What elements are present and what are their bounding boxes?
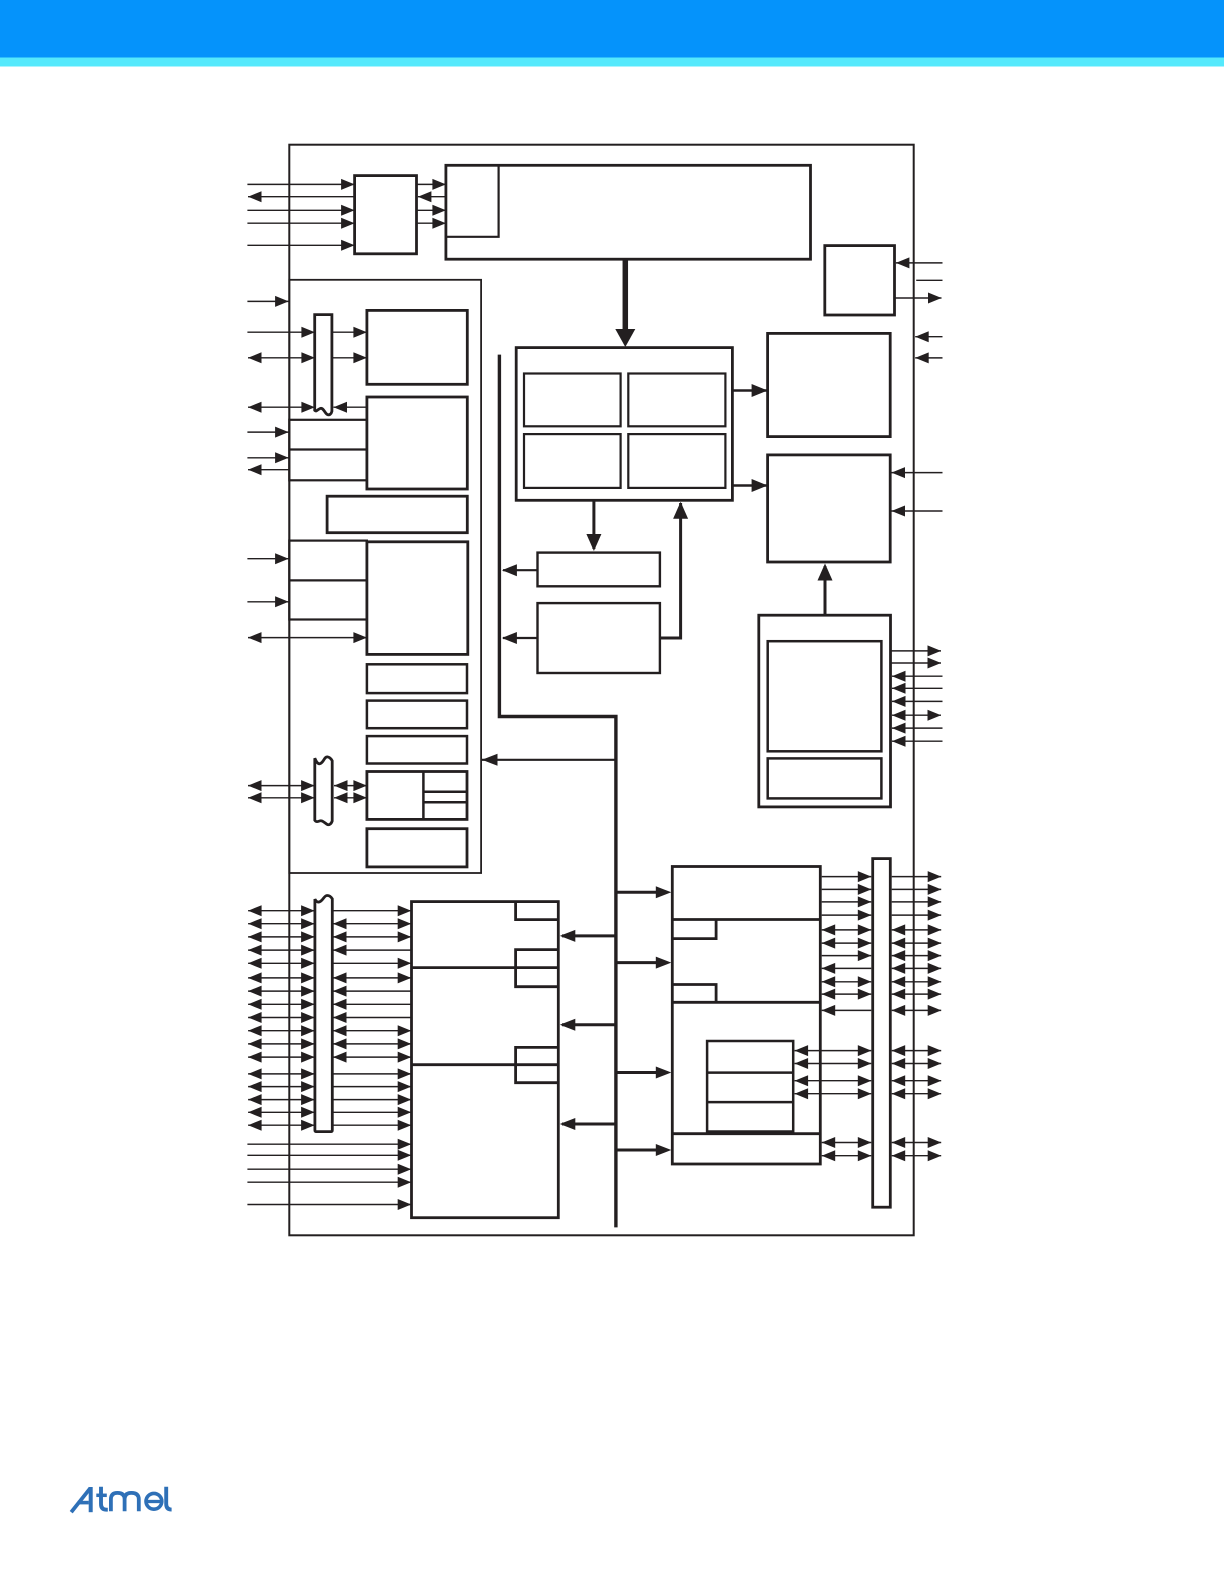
serial row 10 left segment bbox=[822, 989, 872, 1000]
pin line into SRAM b bbox=[892, 506, 943, 517]
CPU block bbox=[516, 348, 732, 501]
CPU register file block bbox=[524, 374, 621, 427]
pin line into debugWIRE bbox=[896, 257, 943, 268]
pin line ribbon R1 c bidirectional bbox=[248, 402, 315, 413]
supervision cell pair upper bbox=[289, 420, 367, 481]
port pin line 6 left segment bbox=[248, 972, 315, 983]
bus arrow into left section bbox=[482, 754, 616, 766]
CPU ALU block bbox=[628, 374, 725, 427]
pin line SPI b bidirectional bbox=[248, 792, 315, 803]
pin line ADC out 2 bbox=[891, 658, 942, 669]
pin line RESET into watchdog bbox=[247, 240, 354, 251]
internal bandgap block bbox=[768, 758, 882, 798]
bus arrow clock to CPU bbox=[615, 259, 635, 347]
SPI inner divider vertical bbox=[422, 772, 425, 820]
port wire 1 ribbon to port block bbox=[332, 905, 411, 916]
ribbon connector R1 bbox=[315, 315, 332, 415]
serial bottom row 1 right segment bbox=[892, 1137, 942, 1148]
port pin line 4 left segment bbox=[248, 945, 315, 956]
pin line into ribbon R1 a bbox=[247, 327, 315, 338]
bus arrow into port block 1 bbox=[560, 930, 616, 942]
TWI sub-block bbox=[707, 1041, 793, 1132]
serial notch upper bbox=[672, 920, 716, 939]
serial row 1 left segment bbox=[822, 871, 872, 882]
pin line CLKO out of watchdog bbox=[248, 191, 355, 202]
port wire 6 ribbon to port block bbox=[333, 972, 411, 983]
serial row 4 right segment bbox=[892, 910, 942, 921]
wire ribbon R2 to SPI b bbox=[334, 792, 367, 803]
pin line into lower cell 1 bbox=[247, 553, 288, 564]
ribbon connector R2 bbox=[315, 757, 332, 825]
timer counter 0 block bbox=[367, 664, 467, 693]
bus arrow into serial block 1 bbox=[616, 886, 671, 898]
instruction register block bbox=[538, 553, 660, 587]
clock generation block bbox=[446, 165, 811, 259]
clock prescaler block bbox=[327, 496, 467, 533]
port wire 14 ribbon to port block bbox=[332, 1081, 411, 1092]
TWI row 1 right segment bbox=[892, 1045, 942, 1056]
power cell divider lower bbox=[289, 579, 367, 581]
wire ribbon R1 to oscillator a bbox=[332, 327, 367, 338]
clock multiplexer block bbox=[367, 397, 467, 489]
pin line reset bidirectional bbox=[248, 632, 367, 643]
ADC section block bbox=[759, 615, 891, 807]
port pin line 1 left segment bbox=[248, 905, 315, 916]
serial row 5 left segment bbox=[822, 924, 872, 935]
header band bbox=[0, 0, 1224, 58]
port pin line 10 left segment bbox=[248, 1025, 315, 1036]
pin line CLKI into watchdog bbox=[247, 179, 354, 190]
bus arrow into serial block 3 bbox=[616, 1067, 671, 1079]
wire clock logic to ribbon R1 bbox=[334, 402, 367, 413]
port wire 7 ribbon to port block bbox=[333, 986, 412, 997]
serial row 3 right segment bbox=[892, 896, 942, 907]
port wire 3 ribbon to port block bbox=[333, 931, 411, 942]
pin stub line GND bbox=[916, 279, 942, 281]
serial notch lower bbox=[672, 985, 716, 1003]
pin line into upper cell 2 bbox=[247, 452, 288, 463]
port wire 16 ribbon to port block bbox=[332, 1107, 411, 1118]
pin line out of debugWIRE bbox=[895, 293, 942, 304]
serial row 1 right segment bbox=[892, 871, 942, 882]
bus arrow into port block 2 bbox=[560, 1019, 616, 1031]
TWI divider 2 bbox=[707, 1101, 793, 1104]
port notch lower bbox=[516, 1047, 559, 1082]
TWI divider 1 bbox=[707, 1071, 793, 1074]
pin line ADC bidirectional bbox=[892, 710, 941, 721]
ribbon connector R4 bbox=[315, 895, 332, 1131]
flash block bbox=[768, 333, 891, 436]
watchdog timer block bbox=[355, 176, 417, 254]
wire decode feedback to CPU bbox=[660, 502, 688, 638]
port divider 1 bbox=[412, 966, 559, 969]
input pin line 5 into port block bbox=[247, 1199, 411, 1210]
left section frame bbox=[289, 280, 481, 873]
TWI row 3 right segment bbox=[892, 1075, 942, 1086]
chip outer frame bbox=[289, 145, 913, 1236]
pin line XTAL2 into watchdog bbox=[247, 218, 354, 229]
pin line into left section bbox=[247, 296, 288, 307]
port wire 15 ribbon to port block bbox=[332, 1094, 411, 1105]
serial row 4 left segment bbox=[822, 910, 872, 921]
serial divider 3 bbox=[672, 1132, 820, 1135]
port pin line 17 left segment bbox=[248, 1120, 315, 1131]
arrow ADC section to SRAM bbox=[818, 564, 833, 615]
serial row 11 right segment bbox=[892, 1005, 942, 1016]
timer counter 2 block bbox=[367, 736, 467, 763]
pin line ADC in 4 bbox=[892, 723, 943, 734]
port wire 8 ribbon to port block bbox=[333, 999, 412, 1010]
port pin line 13 left segment bbox=[248, 1068, 315, 1079]
port wire 13 ribbon to port block bbox=[332, 1068, 411, 1079]
pin line out of upper cell bbox=[248, 464, 289, 475]
TWI row 2 left segment bbox=[795, 1058, 872, 1069]
port wire 9 ribbon to port block bbox=[333, 1012, 412, 1023]
SRAM block bbox=[768, 455, 891, 562]
pin line ADC in 3 bbox=[892, 696, 943, 707]
pin line VCC into frame bbox=[915, 331, 942, 342]
supervision cell divider upper bbox=[289, 448, 367, 450]
SPI block bbox=[367, 772, 467, 820]
port pin line 9 left segment bbox=[248, 1012, 315, 1023]
wire ribbon R1 to oscillator b bbox=[332, 352, 367, 363]
serial interfaces block bbox=[672, 867, 820, 1165]
serial row 8 right segment bbox=[892, 963, 942, 974]
serial row 3 left segment bbox=[822, 896, 872, 907]
timer counter 1 block bbox=[367, 701, 467, 729]
port pin line 11 left segment bbox=[248, 1038, 315, 1049]
pin line into upper cell 1 bbox=[247, 427, 288, 438]
port block bbox=[412, 902, 559, 1218]
A/D converter block bbox=[768, 641, 882, 751]
instruction decode block bbox=[538, 603, 660, 673]
input pin line 1 into port block bbox=[247, 1139, 411, 1150]
serial row 9 right segment bbox=[892, 976, 942, 987]
serial row 9 left segment bbox=[822, 976, 872, 987]
SPI inner divider h1 bbox=[423, 791, 467, 794]
debugWIRE block bbox=[825, 246, 895, 315]
serial bottom row 2 right segment bbox=[892, 1150, 942, 1161]
CPU status register block bbox=[524, 434, 621, 488]
TWI row 3 left segment bbox=[795, 1075, 872, 1086]
serial divider 1 bbox=[672, 918, 820, 921]
port wire 12 ribbon to port block bbox=[333, 1052, 411, 1063]
port wire 17 ribbon to port block bbox=[332, 1120, 411, 1131]
header accent strip bbox=[0, 58, 1224, 67]
arrow CPU to instruction register bbox=[586, 500, 601, 551]
input pin line 4 into port block bbox=[247, 1177, 411, 1188]
serial row 10 right segment bbox=[892, 989, 942, 1000]
port pin line 5 left segment bbox=[248, 958, 315, 969]
wire watchdog to clock block 1 bbox=[417, 179, 446, 190]
data bus bbox=[499, 355, 616, 1228]
port pin line 3 left segment bbox=[248, 931, 315, 942]
pin line ADC in 1 bbox=[892, 671, 943, 682]
port pin line 14 left segment bbox=[248, 1081, 315, 1092]
input pin line 3 into port block bbox=[247, 1164, 411, 1175]
port wire 5 ribbon to port block bbox=[332, 958, 411, 969]
port pin line 2 left segment bbox=[248, 918, 315, 929]
port pin line 16 left segment bbox=[248, 1107, 315, 1118]
pin line ADC in 5 bbox=[892, 736, 943, 747]
port pin line 15 left segment bbox=[248, 1094, 315, 1105]
port pin line 7 left segment bbox=[248, 986, 315, 997]
port wire 11 ribbon to port block bbox=[333, 1038, 411, 1049]
serial row 5 right segment bbox=[892, 924, 942, 935]
port wire 2 ribbon to port block bbox=[333, 918, 411, 929]
serial row 2 right segment bbox=[892, 884, 942, 895]
pin line GND into frame bbox=[915, 352, 942, 363]
port wire 10 ribbon to port block bbox=[333, 1025, 411, 1036]
serial row 2 left segment bbox=[822, 884, 872, 895]
serial row 7 left segment bbox=[822, 950, 872, 961]
TWI row 1 left segment bbox=[795, 1045, 872, 1056]
serial row 6 left segment bbox=[822, 938, 872, 949]
port pin line 8 left segment bbox=[248, 999, 315, 1010]
wire clock block to watchdog bbox=[418, 191, 446, 202]
EEPROM block bbox=[367, 829, 467, 867]
clock compartment divider bbox=[446, 165, 499, 237]
pin line ribbon R1 b bidirectional bbox=[248, 352, 315, 363]
Atmel logo bbox=[71, 1487, 171, 1512]
pin line SPI a bidirectional bbox=[248, 780, 315, 791]
serial bottom row 2 left segment bbox=[822, 1150, 872, 1161]
wire CPU to SRAM bbox=[732, 479, 767, 492]
arrow instruction decode to bus bbox=[502, 632, 538, 644]
pin line ADC in 2 bbox=[892, 683, 943, 694]
bus arrow into port block 3 bbox=[560, 1118, 616, 1130]
port pin line 12 left segment bbox=[248, 1052, 315, 1063]
serial row 7 right segment bbox=[892, 950, 942, 961]
wire watchdog to clock block 2 bbox=[417, 205, 446, 216]
port wire 4 ribbon to port block bbox=[333, 945, 412, 956]
TWI row 2 right segment bbox=[892, 1058, 942, 1069]
bus arrow into serial block 2 bbox=[616, 957, 671, 969]
port divider 2 bbox=[412, 1063, 559, 1066]
pin line XTAL1 into watchdog bbox=[247, 205, 354, 216]
serial row 6 right segment bbox=[892, 938, 942, 949]
reset logic block bbox=[367, 542, 468, 655]
port notch top bbox=[516, 902, 559, 920]
TWI row 4 left segment bbox=[795, 1088, 872, 1099]
power supervision cell pair lower bbox=[289, 541, 367, 620]
SPI inner divider h2 bbox=[423, 801, 467, 804]
pin driver column bbox=[873, 859, 891, 1208]
pin line into lower cell 2 bbox=[247, 596, 288, 607]
TWI row 4 right segment bbox=[892, 1088, 942, 1099]
oscillator circuits block bbox=[367, 310, 467, 384]
serial bottom row 1 left segment bbox=[822, 1137, 872, 1148]
port notch middle bbox=[516, 950, 559, 987]
pin line ADC out 1 bbox=[891, 645, 942, 656]
serial divider 2 bbox=[672, 1001, 820, 1004]
CPU program counter block bbox=[628, 434, 725, 488]
bus arrow into serial block 4 bbox=[616, 1144, 671, 1156]
serial row 11 left segment bbox=[822, 1005, 872, 1016]
input pin line 2 into port block bbox=[247, 1150, 411, 1161]
arrow instruction register to bus bbox=[502, 564, 538, 576]
serial row 8 left segment bbox=[822, 963, 872, 974]
wire watchdog to clock block 3 bbox=[417, 218, 446, 229]
wire ribbon R2 to SPI a bbox=[334, 780, 367, 791]
wire CPU to flash bbox=[732, 384, 767, 397]
pin line into SRAM a bbox=[892, 467, 943, 478]
